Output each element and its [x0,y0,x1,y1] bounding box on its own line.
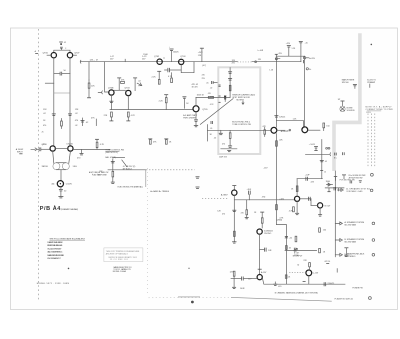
wire between pair [56,148,68,150]
svg-text:+15: +15 [305,42,308,44]
resistor 1K QT10 [291,186,298,192]
svg-text:470: 470 [208,93,211,95]
label 12K bus right [232,60,236,64]
wire emitters down [45,58,70,146]
marks at 321,170 [320,170,326,173]
resistor 22K above QT13 [297,260,310,270]
svg-text:A.F. AMP 2SB77: A.F. AMP 2SB77 [183,114,197,117]
resistor on v288 [285,275,291,279]
wire QT11 down ground [318,208,322,216]
svg-text:470: 470 [241,213,244,215]
svg-text:19 CO REF 101: 19 CO REF 101 [110,259,128,261]
motor noise source [340,101,345,112]
label FL assy [335,297,372,301]
svg-text:470: 470 [222,213,225,215]
resistor pair x166 [164,139,172,144]
svg-text:A B(TONE) AT MAX CW: A B(TONE) AT MAX CW [89,171,109,174]
svg-text:(SCHEMATIC DIAGRAM): (SCHEMATIC DIAGRAM) [61,208,78,211]
label AF AMP [183,114,197,120]
resistor 12K left [230,271,237,288]
label main power [342,79,357,89]
svg-text:470: 470 [202,74,205,76]
label pair x143 [142,56,147,61]
svg-text:FL ASSY NO 4097-01: FL ASSY NO 4097-01 [335,298,353,301]
resistor vert x171.5 [171,73,173,83]
svg-text:6. NO SIGNAL INPUT: 6. NO SIGNAL INPUT [47,257,61,260]
speaker row 3 [335,253,374,259]
Q pair side leads [47,54,77,56]
svg-text:(2SB4): (2SB4) [277,219,283,221]
svg-text:2.2K: 2.2K [152,77,157,79]
svg-text:ARCHIVE OF MANUALS: ARCHIVE OF MANUALS [106,252,129,255]
left of QT12 [231,277,257,290]
misc marks at left edge of title row [35,50,39,53]
wire QT10 collector up [296,179,298,196]
resistor in box [229,85,231,91]
comp x335 [334,176,337,180]
capacitor 12K/25 on bus [274,116,285,119]
node 12K on bus [255,59,262,62]
svg-text:QT0B: QT0B [108,88,114,90]
svg-text:4.7K: 4.7K [100,144,105,146]
wire QT10 down ground [295,202,299,215]
resistor 1K on v286 [286,246,292,250]
wire bus130 to QT08 [207,129,270,131]
wire bottom long [149,296,232,298]
svg-text:C3476: C3476 [66,184,73,186]
wire base link Q101a/Q101b [54,50,70,52]
ground [58,197,63,198]
svg-text:B+: B+ [309,69,311,71]
capacitor below jack [59,187,67,196]
connector bus left end [79,60,82,63]
resistor into QT09 [254,212,264,228]
wire supply bus vertical [275,62,277,127]
svg-text:A= BASS B= TREBLE: A= BASS B= TREBLE [150,190,169,193]
svg-text:50: 50 [297,264,299,266]
node stub 470 [77,149,84,159]
resistor pair x150 [148,139,157,144]
label cluster left of box [202,74,209,84]
capacitor above QT0B [117,78,125,90]
wire drop to QT0B [105,62,109,92]
cap node on drop [217,210,236,215]
label small under bus130 [210,134,217,139]
label note right [366,106,394,111]
capacitor C101 top feed [59,42,63,50]
capacitor +15 feed [286,43,296,56]
notes title [49,238,85,241]
fold line left [38,29,40,301]
wire box inner vert [229,68,231,98]
svg-text:150: 150 [323,230,326,232]
label A eq note [89,171,109,177]
svg-text:3. K = 1,000 OHMS 1/4W: 3. K = 1,000 OHMS 1/4W [47,248,61,250]
connector left of QT0B [98,91,102,94]
transistor QT01b [68,146,73,151]
svg-text:+15V: +15V [286,43,291,45]
wire between QT0B QT03b [114,89,125,91]
wire QT05 collector up [195,97,197,105]
label 1.47 25V [110,56,115,61]
wire QT09 down [259,234,261,274]
page number dot [191,301,194,304]
feedback loop QT03 [181,62,194,73]
wire hbus97 [196,96,230,98]
svg-text:QT07: QT07 [74,52,80,54]
marks cluster right [344,248,348,257]
wire QT08 emitter bus [234,196,294,200]
transistor QT10 [295,196,300,201]
wire QT9 right [308,129,320,131]
transistor QT02 [157,59,162,64]
svg-text:FOR MUTING SW: FOR MUTING SW [340,180,355,182]
label +15V right of QT04 [277,130,291,132]
svg-text:(PRE): (PRE) [294,255,299,257]
svg-text:50: 50 [42,166,44,168]
fold line center [147,168,149,296]
svg-text:A-15V: A-15V [261,271,267,274]
speaker row 2 [335,238,374,244]
svg-text:.02: .02 [75,125,78,127]
wire h178 [297,178,322,180]
svg-text:470: 470 [43,125,46,127]
svg-text:.05: .05 [210,128,213,130]
capacitor on hbus97 [224,96,225,100]
marks near 326,148 [326,147,330,149]
wire emitter jog [262,278,345,284]
speaker row 0 [334,187,373,193]
stub cap 470 [273,282,281,288]
svg-text:PHONO: PHONO [264,233,271,235]
transistor QT09 [257,229,262,234]
label 4.7uf [123,166,136,171]
capacitor +50 on v286 [285,236,292,239]
svg-text:A 2SB77: A 2SB77 [281,130,288,133]
svg-text:+1UF: +1UF [305,175,311,177]
svg-text:20W MAX LOAD: 20W MAX LOAD [346,190,363,193]
dashed note drops [367,112,375,167]
svg-text:100/25: 100/25 [173,52,179,54]
capacitor on h178 [305,175,311,181]
svg-text:L= 40R: L= 40R [258,50,264,52]
value label col right additions [43,125,77,127]
transistor QT13 [306,270,312,276]
ground QT08 chain [232,242,236,243]
svg-text:4.7K: 4.7K [131,115,136,117]
resistor 22K on bus [276,139,284,146]
wire emitter bus right [73,148,110,150]
svg-text:ELECTRONIC P/B (PARTIAL): ELECTRONIC P/B (PARTIAL) [118,186,144,189]
resistor 47K right of box [262,126,266,137]
resistor 4.7K QT10 [289,207,295,213]
connector node A+15V [303,57,315,60]
capacitor 100/25 [169,47,179,62]
speaker row 1 [335,221,374,227]
cap above QT08 [232,186,236,190]
capacitor C105 right leg [68,114,72,116]
svg-text:(SEE NOTE 3): (SEE NOTE 3) [105,152,118,154]
svg-text:QT03: QT03 [180,56,186,58]
resistor 22K below [104,112,114,121]
transistor QT0B [109,90,114,95]
svg-text:12K→: 12K→ [90,59,96,61]
svg-text:MODEL 5971 · 1358 · DWG: MODEL 5971 · 1358 · DWG [37,283,70,285]
junction tick on emitter bus [246,200,248,210]
svg-text:PREAMP: PREAMP [367,81,376,84]
resistor 2.2K leg [152,71,162,84]
diode cluster [326,181,333,186]
capacitor 1uf on bus [247,189,253,200]
svg-text:QT03: QT03 [124,88,130,90]
svg-text:2200/25: 2200/25 [327,283,334,285]
arrow into QT03b [137,83,142,86]
label noise source [347,107,356,112]
circled ref [371,173,374,176]
resistor mid branch input pair [61,119,63,129]
wire v322 up [321,140,323,179]
svg-text:47Ω: 47Ω [262,196,266,199]
svg-text:B C E: B C E [367,112,371,114]
svg-text:8Ω 20W MAX: 8Ω 20W MAX [345,224,357,227]
svg-text:MODEL 1000A: MODEL 1000A [113,270,127,273]
transistor QT03b [126,90,131,95]
svg-text:.02: .02 [138,80,141,82]
transistor QT04 [271,127,277,133]
svg-text:SOURCE: SOURCE [347,110,356,112]
svg-text:5. MEASURED WITH VTVM 20K/V: 5. MEASURED WITH VTVM 20K/V [47,254,64,257]
resistor R110 [95,139,105,149]
svg-text:10UF 25V: 10UF 25V [219,157,228,159]
capacitor C104 left leg [52,114,56,116]
wire third bus [110,109,193,111]
svg-text:PWR. DRIVER: PWR. DRIVER [183,118,196,120]
link between input verticals [54,92,70,94]
capacitor above QT03b [133,78,137,91]
capacitor end of top bus [299,41,308,61]
wire QT05 emitter down [194,112,198,127]
svg-text:.02: .02 [64,42,67,44]
svg-text:12K/25: 12K/25 [279,117,285,119]
transistor QT07 [67,53,72,58]
svg-text:QT06: QT06 [42,144,48,146]
tick node x125 [124,59,126,62]
svg-text:C9psB: C9psB [66,144,73,146]
stamp box [104,248,143,262]
svg-text:(.47): (.47) [202,65,206,67]
wire pot to jack [60,170,62,181]
transistor QT01a [50,146,55,151]
svg-text:B OUT: B OUT [325,205,332,207]
value labels right column [75,109,79,122]
resistor 1K right low [319,248,326,253]
wire h250 [285,250,317,252]
svg-text:(B): (B) [52,184,55,186]
svg-text:A+15V: A+15V [309,57,315,60]
tiny ref dot left [68,268,70,270]
capacitor on drop [109,101,113,102]
svg-text:INPUT: INPUT [17,151,24,153]
resistor 4.7K below [126,112,135,121]
svg-text:47: 47 [96,59,98,61]
node on bus [275,53,283,62]
capacitor in box b [228,79,232,81]
pot VR101 body [53,163,69,170]
dot small mid [188,268,189,269]
svg-text:CONNECTIONS TO PWR: CONNECTIONS TO PWR [366,109,394,111]
label cluster 47K [192,84,199,89]
capacitor on h285 [303,282,335,287]
svg-text:POWER P/B: POWER P/B [352,288,363,290]
link QT10 QT11 [300,197,318,206]
svg-text:100K 1K: 100K 1K [197,94,205,96]
svg-text:150K: 150K [143,54,148,56]
label A INPUT [16,148,24,154]
capacitor feedback [165,68,182,72]
connector jack J101 [57,181,63,187]
svg-text:TONE CONTROL P/B: TONE CONTROL P/B [232,124,251,126]
resistor 150 right [319,228,326,232]
value label +12 [64,42,67,50]
svg-text:.02: .02 [210,88,213,90]
cap bars on box left edge [218,85,220,102]
svg-text:+24V: +24V [198,52,203,54]
wire Q to pot [53,151,71,163]
resistor on drop [234,231,236,236]
caps row x351 [350,180,362,183]
resistor lower on bus [276,198,285,219]
resistor 22K left low [285,236,297,242]
capacitor left of box a [210,81,217,90]
component cluster x112 [98,159,115,184]
jumper mark in box [224,96,226,102]
transistor QT9 [276,121,303,127]
svg-text:B CHANNEL SAME AS A CHANNEL (N: B CHANNEL SAME AS A CHANNEL (NOT SHOWN) [275,292,318,295]
svg-text:1K 470: 1K 470 [192,86,198,88]
svg-text:77: 77 [163,58,165,60]
wire QT08 down [233,200,235,242]
svg-text:1. CAPACITOR VALUES IN UF: 1. CAPACITOR VALUES IN UF [47,241,63,244]
svg-text:2.2K: 2.2K [159,101,164,103]
capacitor C107 input [37,144,49,151]
svg-text:MAIN POWER: MAIN POWER [342,79,355,82]
label RL noise [349,175,366,180]
svg-text:A 1500Z: A 1500Z [16,148,24,151]
wire h1698 dashed tail [146,169,195,171]
supply stub +24V [198,48,204,62]
capacitor C103 [54,72,70,76]
resistor cluster x89 [87,62,95,98]
transistor QT05 [193,106,199,112]
svg-text:+ 50/25: + 50/25 [309,144,315,146]
wire v145 [145,170,147,187]
svg-text:SW 500: SW 500 [342,82,349,84]
svg-text:QT05: QT05 [202,109,208,111]
wire down to QT9 [276,55,304,57]
resistor horiz on hbus97 [208,97,213,99]
label electronic pb [232,122,251,127]
dashed link into QT08 [202,198,228,200]
marks on h187 [327,188,338,192]
wire right bus v335 [334,171,336,257]
box bottom cluster [219,130,237,151]
svg-text:A 2SB7: A 2SB7 [221,194,229,197]
svg-text:47K 10: 47K 10 [324,261,330,263]
cap marks on v322 [320,160,327,163]
svg-text:4. ALL VOLTAGES ARE DC: 4. ALL VOLTAGES ARE DC [47,251,63,254]
stub 1K left of QT05 [182,97,189,109]
capacitor 1uf lower [260,248,273,252]
connector marks left edge [196,177,200,189]
wire drops to 3rd bus [111,95,128,109]
comp cluster 326 [324,261,337,272]
svg-text:A. SPEAKER SYSTEM: A. SPEAKER SYSTEM [345,221,365,224]
wire h157 [113,157,125,159]
svg-text:P/B À4: P/B À4 [40,205,61,212]
transistor QT08 [232,190,237,195]
svg-text:B. SPEAKER SYSTEM: B. SPEAKER SYSTEM [345,238,365,241]
wire main top bus [81,61,238,63]
wire h1698 [108,169,146,171]
capacitor on h250 [294,248,296,252]
svg-text:.05: .05 [206,83,209,85]
diagonal wire [200,99,233,125]
value labels left column [43,109,47,122]
label remove jumper [232,93,255,104]
label QT09 [264,229,272,235]
label supply right [367,80,376,88]
transistor QT06 [51,53,56,58]
svg-text:C-15V: C-15V [313,272,319,274]
diagonal jog [122,160,127,167]
capacitor C106 [81,118,90,126]
svg-text:QT02: QT02 [154,56,160,58]
svg-text:470: 470 [222,143,225,145]
capacitor left of box d [210,121,213,130]
svg-text:FLAT RESPONSE: FLAT RESPONSE [92,173,108,176]
svg-text:8Ω 20W MAX: 8Ω 20W MAX [345,240,357,243]
wire supply bus vertical lower [275,134,277,225]
dot top right [371,44,373,46]
svg-text:QT06: QT06 [43,52,49,54]
svg-text:.02: .02 [214,137,217,139]
node stub x96 [91,117,96,125]
gray highlight box [218,67,260,154]
svg-text:10: 10 [324,171,326,173]
resistor 150 [323,123,330,131]
transistor QT12 [257,275,262,280]
wire vert x207 [206,125,208,141]
transistor QT11 [318,203,323,208]
stamp text [106,250,140,261]
transistor QT03 [179,59,184,64]
svg-text:5KΩ: 5KΩ [73,165,77,168]
svg-text:150: 150 [326,125,329,127]
wire h187 [325,187,344,189]
svg-text:+50: +50 [289,237,292,239]
resistor 2.2K mid bus [159,95,169,110]
svg-text:1N60: 1N60 [326,181,330,183]
connector arrow input [31,148,37,151]
svg-text:25: 25 [42,132,44,134]
cap x344 [342,175,346,179]
gray highlight bus [334,33,360,171]
label switch note [105,150,124,155]
svg-text:470: 470 [278,286,281,288]
capacitor in box a [228,72,232,74]
svg-text:.05: .05 [325,161,327,163]
arrow marks right of v286 [294,248,299,257]
